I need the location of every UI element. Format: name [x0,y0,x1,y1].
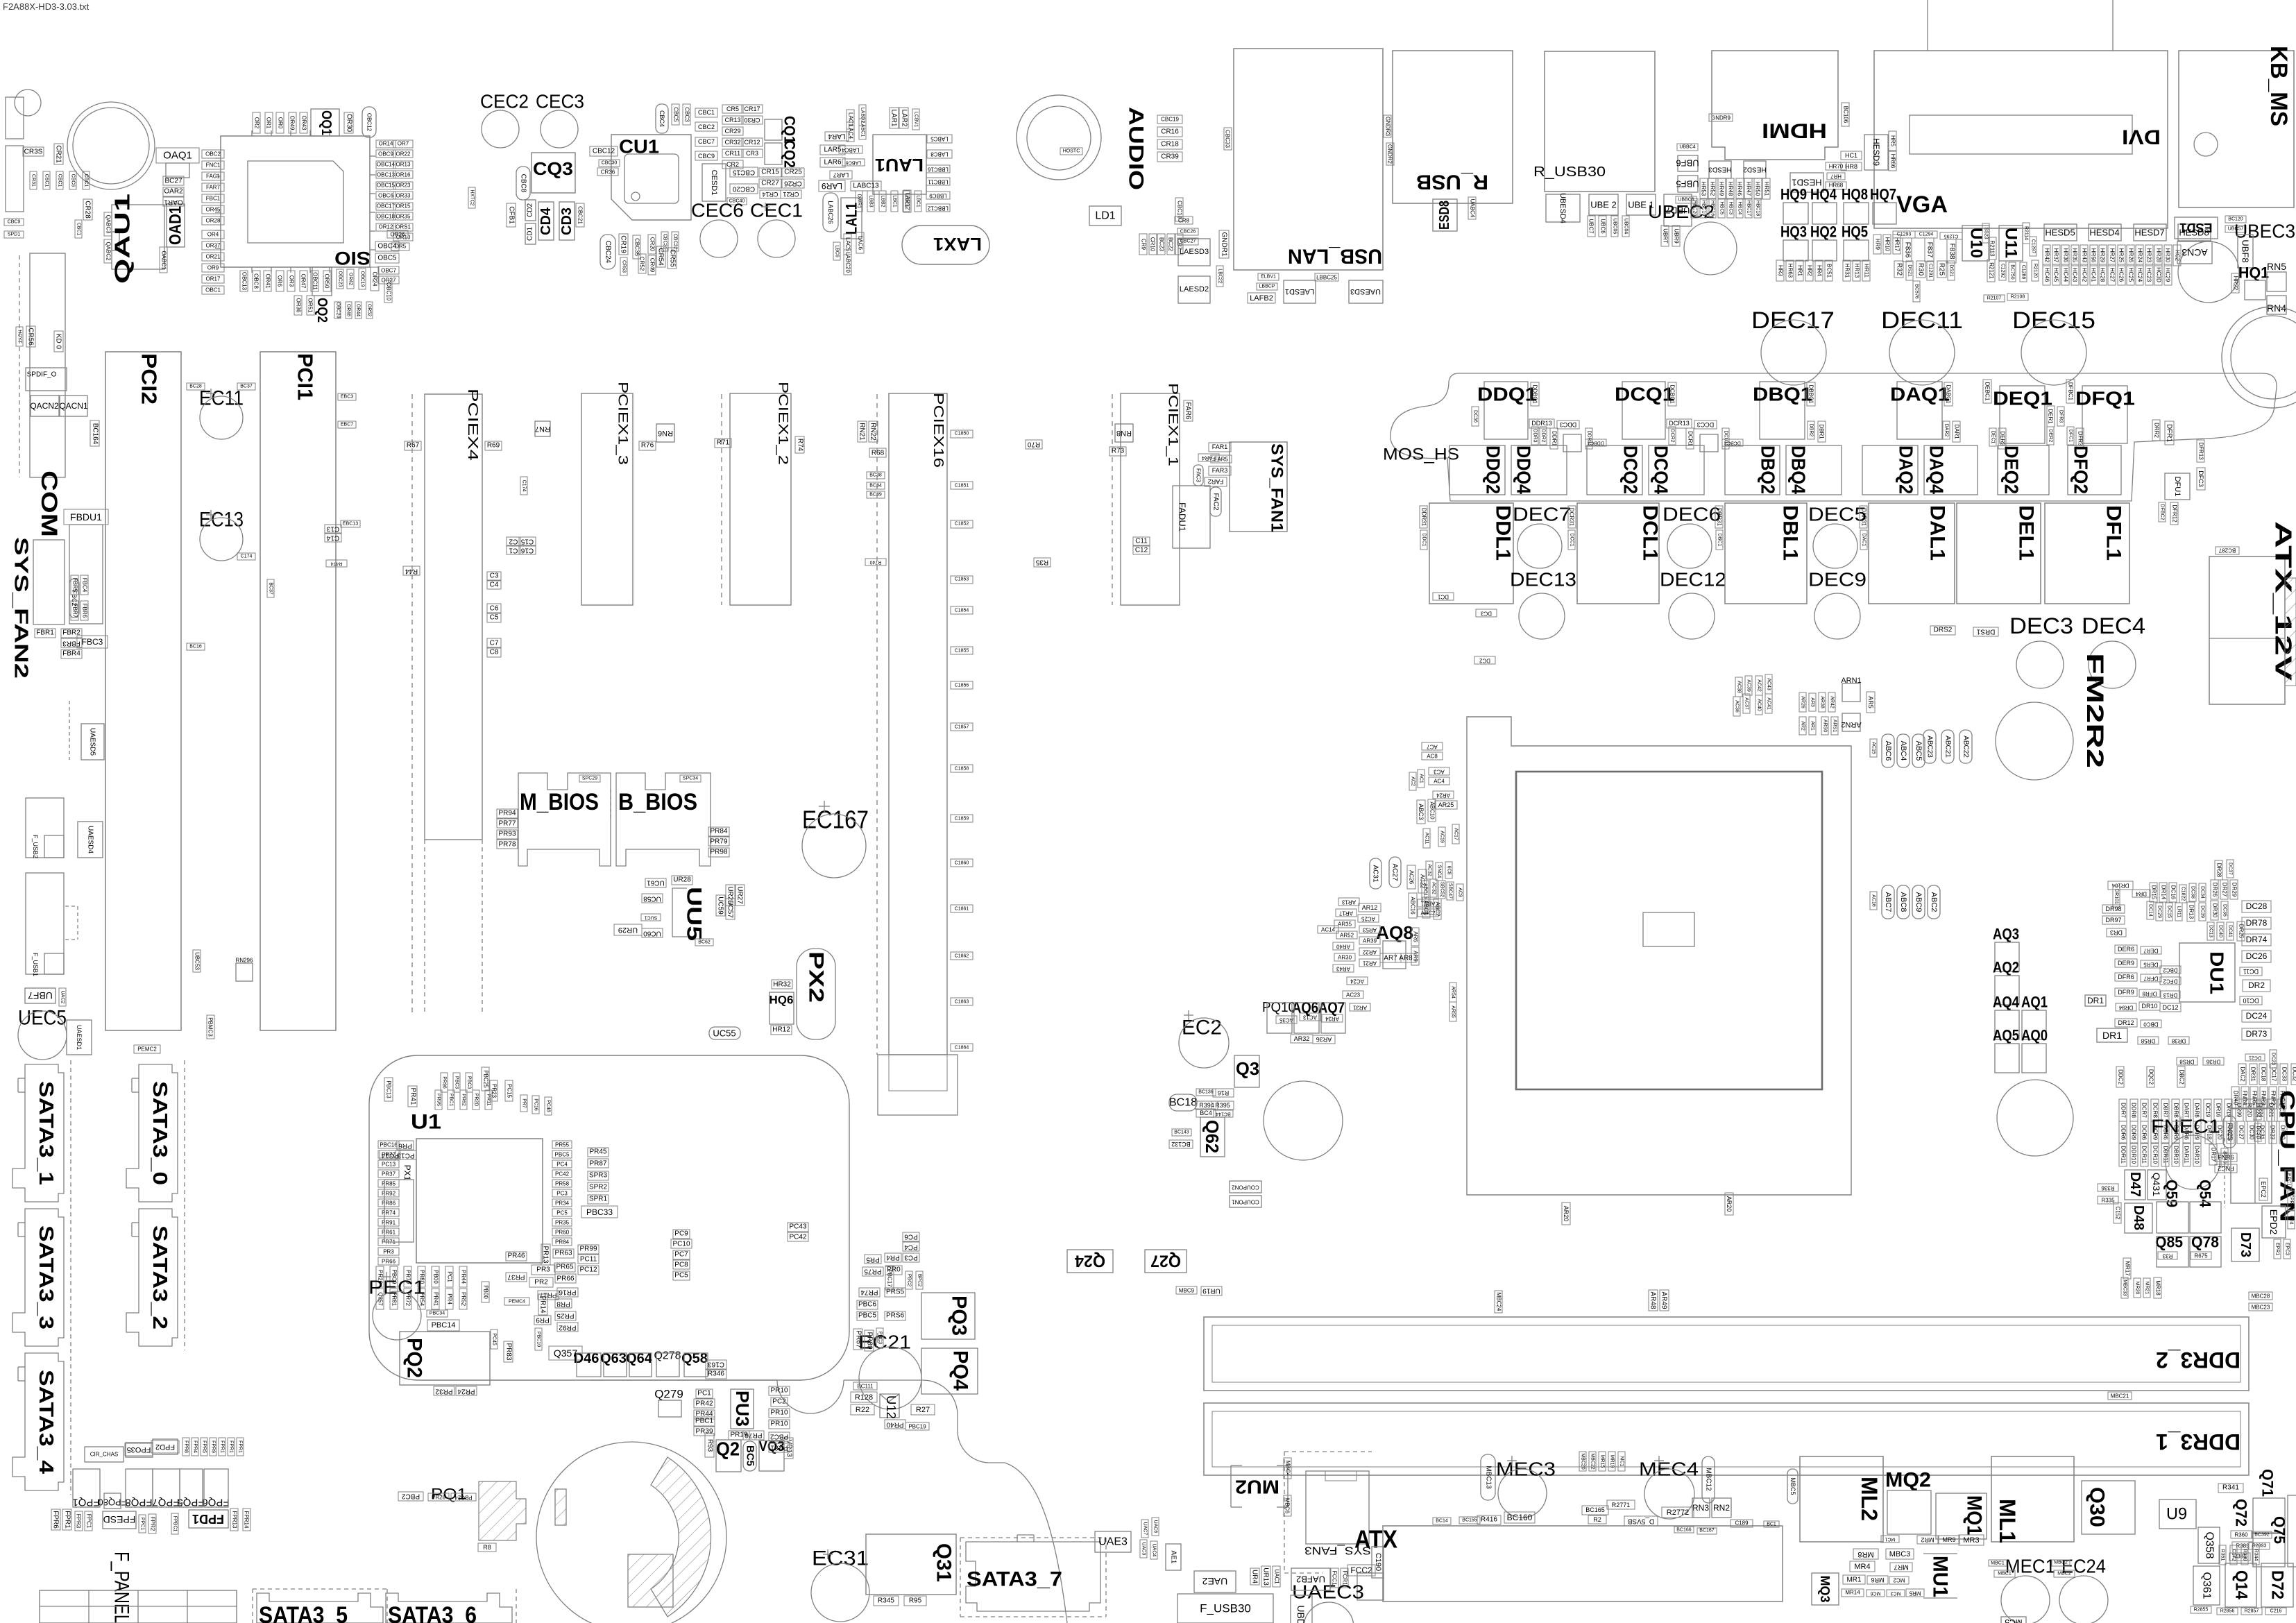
svg-text:DQC2: DQC2 [2148,1069,2154,1085]
svg-text:DR13: DR13 [2163,992,2177,999]
svg-text:PU3: PU3 [732,1391,753,1427]
capacitor C190 [1372,1547,1384,1578]
small parts left edge [4,219,24,226]
resistors CR54 CR55 CR52 CR49 CR53 [656,246,665,267]
svg-text:PC15: PC15 [507,1084,513,1098]
svg-text:CBC2: CBC2 [698,124,715,130]
svg-text:CR25: CR25 [784,169,802,176]
svg-text:DDR6: DDR6 [2120,1125,2127,1140]
svg-text:MBC4: MBC4 [1285,1461,1291,1477]
svg-text:DC28: DC28 [2246,901,2268,911]
diode D72 [2261,1563,2293,1607]
svg-text:PQ2: PQ2 [403,1338,426,1378]
capacitors above DDR3_2 [1201,1286,1222,1295]
svg-text:DC41: DC41 [2228,925,2233,937]
svg-text:DR29: DR29 [2231,883,2238,897]
svg-text:ELBV1: ELBV1 [1261,275,1276,280]
svg-text:CR12: CR12 [744,139,760,146]
svg-text:UBRT: UBRT [1663,228,1669,244]
svg-text:HR37: HR37 [2053,248,2059,263]
capacitors PC43 PC42 [788,1223,808,1232]
svg-text:DR15: DR15 [2151,885,2157,900]
svg-text:CD4: CD4 [538,207,554,235]
svg-text:MR1: MR1 [1846,1577,1862,1584]
svg-text:MR18: MR18 [2155,1280,2161,1295]
svg-text:MC6: MC6 [1871,1591,1881,1596]
svg-text:ABC8: ABC8 [1899,892,1907,912]
svg-text:C189: C189 [1735,1520,1749,1527]
FET PQ3 [921,1293,975,1339]
svg-text:OBC23: OBC23 [338,271,343,287]
svg-text:PC14: PC14 [381,1152,398,1159]
capacitor SPC34 [680,775,701,782]
svg-text:AC36: AC36 [1735,700,1740,713]
svg-text:DCQ4: DCQ4 [1651,445,1672,494]
svg-text:DR12: DR12 [2118,1019,2134,1026]
svg-text:UC60: UC60 [643,930,661,937]
capacitor UBF7 [25,988,56,1003]
svg-text:DFR3: DFR3 [2059,410,2064,423]
svg-text:CR11: CR11 [725,150,740,157]
svg-text:PR16: PR16 [559,1289,576,1296]
svg-text:SATA3_5: SATA3_5 [259,1602,348,1623]
svg-text:AR32: AR32 [1294,1035,1310,1042]
inductor ML2 [1800,1456,1883,1542]
svg-text:DR78: DR78 [2246,918,2268,928]
svg-text:HR23: HR23 [2146,248,2152,263]
svg-text:CR56: CR56 [27,328,35,346]
svg-text:C1822: C1822 [2181,887,2186,901]
resistor column AR12 AC25 AR53 AR39 AR22 AR21 [1359,903,1381,912]
LAN chip LAU1 [873,135,926,194]
svg-text:PBC10: PBC10 [536,1332,541,1347]
svg-text:R345: R345 [878,1597,894,1605]
svg-text:PR2: PR2 [534,1279,548,1286]
capacitor GNDR9 [1709,114,1733,121]
FET Q431 [2148,1170,2166,1200]
svg-text:DDR10: DDR10 [2131,1146,2137,1164]
svg-text:D47: D47 [2127,1172,2143,1197]
svg-text:DCR6: DCR6 [2141,1125,2148,1140]
svg-text:DBR10: DBR10 [2173,1146,2179,1164]
svg-text:C1861: C1861 [955,907,969,912]
svg-text:HC41: HC41 [2091,268,2097,282]
capacitor LABC13 [851,181,881,191]
svg-text:CD3: CD3 [559,207,575,235]
resistor network RN2 [1712,1498,1731,1518]
rear USB stack R_USB [1393,51,1513,203]
svg-text:PR89: PR89 [866,1332,874,1349]
svg-text:LAESD3: LAESD3 [1180,248,1209,256]
svg-text:HC3D: HC3D [2156,267,2162,282]
svg-text:HQ3: HQ3 [1780,223,1807,241]
svg-text:AR17: AR17 [1338,910,1353,917]
resistors LAC5 LAC6 LABC20 LAC2 [844,234,851,255]
svg-text:AR20: AR20 [1563,1206,1570,1222]
svg-text:C163: C163 [708,1361,724,1368]
svg-text:UBC7: UBC7 [1588,219,1595,234]
SATA connector SATA3_1 [12,1064,64,1202]
svg-text:AC2: AC2 [1411,776,1415,786]
svg-text:FPR2: FPR2 [150,1517,156,1531]
svg-text:FBC1: FBC1 [206,196,221,202]
resistors R383 R381 [2232,1542,2253,1549]
hatched region left edge [555,1489,566,1525]
svg-text:SS23: SS23 [1984,227,1989,239]
svg-text:UAFB2: UAFB2 [1296,1574,1325,1585]
resistor row below LAU1 [856,191,862,212]
svg-text:HC29: HC29 [2165,268,2171,282]
svg-text:DR3: DR3 [2110,929,2123,936]
diode CD2 [525,200,536,221]
svg-text:R474: R474 [331,561,343,566]
svg-text:HR51: HR51 [1764,182,1770,196]
svg-text:AR9: AR9 [1413,951,1419,962]
svg-text:DDR3_1: DDR3_1 [2156,1429,2240,1454]
svg-text:MR5: MR5 [1909,1590,1921,1597]
svg-text:DFR9: DFR9 [2118,989,2134,996]
svg-text:PR13: PR13 [542,1246,550,1263]
SIO pin stubs [251,130,253,136]
svg-text:OBC13: OBC13 [377,172,396,178]
svg-text:UU5: UU5 [683,887,706,941]
svg-text:DFR3: DFR3 [2077,432,2084,446]
svg-text:CBC19: CBC19 [1161,117,1179,123]
svg-text:FAC1: FAC1 [206,173,221,180]
svg-text:DC2: DC2 [1479,658,1490,664]
svg-text:OAR1: OAR1 [164,198,183,206]
svg-text:PBC3: PBC3 [878,1332,883,1344]
svg-text:OR30: OR30 [346,114,353,133]
svg-text:OBC9: OBC9 [378,151,393,158]
svg-text:R344: R344 [2254,1549,2259,1561]
svg-text:MBC2: MBC2 [2054,1561,2068,1565]
svg-text:UC55: UC55 [713,1028,735,1039]
svg-text:PR66: PR66 [382,1259,396,1265]
svg-text:PC12: PC12 [579,1266,597,1274]
svg-text:EBC13: EBC13 [343,522,358,527]
capacitors beside DDQ1 [1531,382,1539,406]
resistors right of U1 [588,1148,609,1157]
PCIe x1 slot PCIEX1_1 [1112,394,1113,605]
svg-text:HR26: HR26 [2128,248,2134,263]
svg-text:PR63: PR63 [554,1250,572,1257]
resistor network RN22 RN21 [869,421,878,442]
svg-text:OR16: OR16 [396,172,411,178]
svg-text:R_USB30: R_USB30 [1533,164,1606,180]
svg-text:R35: R35 [1035,559,1048,566]
svg-text:HC24: HC24 [2137,268,2143,282]
svg-text:CR54: CR54 [657,248,665,266]
svg-text:HR17: HR17 [1894,237,1900,252]
svg-text:AC15: AC15 [1871,742,1876,754]
left side resistor cluster AC7 AC8 AC3 AC4 [1422,742,1443,750]
capacitor FAC3 [1193,465,1203,486]
inductor DEL1 [1957,503,2041,604]
capacitor cluster below-right of SIO [337,269,343,289]
svg-text:PCIEX1_1: PCIEX1_1 [1166,383,1180,466]
DVI VGA connector body [1874,51,2168,228]
svg-text:PR9S: PR9S [436,1094,441,1107]
svg-text:DCR11: DCR11 [2141,1146,2148,1164]
ESD chip CESD1 [702,164,726,201]
svg-text:PR46: PR46 [507,1252,525,1260]
svg-text:PR99: PR99 [579,1246,597,1253]
svg-text:C1851: C1851 [955,484,969,488]
resistors FBR cluster [80,575,88,595]
svg-text:Q3: Q3 [1236,1058,1259,1079]
svg-text:DFC3: DFC3 [2197,470,2204,487]
resistor HOYTC2 [468,187,475,208]
svg-text:FBDU1: FBDU1 [70,511,102,522]
svg-text:R_USB: R_USB [1416,171,1488,194]
FET PQ2 [400,1332,490,1385]
resistors R33 R675 [2158,1252,2177,1259]
resistor cluster right of PEC1 [506,1252,527,1261]
svg-text:OR49: OR49 [289,116,296,130]
svg-text:CR10: CR10 [1150,237,1156,252]
resistor AR5 [1866,692,1875,713]
diode CD3 [559,202,575,240]
svg-text:OQ2: OQ2 [314,298,330,323]
U1 surrounding passives top row [384,1078,393,1101]
resistor DR1 label [2097,1028,2127,1042]
resistors R2121 R2113 etc [1987,260,1995,282]
svg-text:HESD5: HESD5 [2045,228,2075,238]
svg-text:DRR2: DRR2 [2154,423,2160,438]
svg-text:MOS_HS: MOS_HS [1383,445,1459,464]
svg-text:PR86: PR86 [382,1200,396,1207]
svg-text:FNR5: FNR5 [2252,1091,2258,1105]
svg-text:PX1: PX1 [402,1165,412,1181]
svg-text:UBE 2: UBE 2 [1590,200,1617,210]
capacitors C5 C6 [487,604,501,613]
svg-text:R67: R67 [407,442,420,450]
svg-text:Q31: Q31 [933,1543,955,1582]
svg-text:PR45: PR45 [589,1148,606,1156]
svg-text:RN7: RN7 [535,425,550,433]
svg-text:OR26: OR26 [391,232,405,238]
svg-text:LABC26: LABC26 [827,201,834,224]
svg-text:HC27: HC27 [2109,268,2116,282]
svg-text:DR104: DR104 [2111,883,2129,889]
capacitor DC2 [1474,656,1495,664]
svg-text:KD 0: KD 0 [55,334,62,350]
resistors R345 R95 [874,1596,899,1606]
svg-text:CR53: CR53 [622,260,627,273]
svg-text:CBC18: CBC18 [1177,201,1183,219]
svg-text:DBR31: DBR31 [1717,508,1723,526]
crystal CQ3 [532,153,575,193]
svg-text:PR39: PR39 [695,1428,713,1436]
svg-text:MC5: MC5 [2005,1617,2023,1623]
svg-text:PEC1: PEC1 [368,1277,425,1298]
capacitors above ESD1 [2225,216,2246,223]
svg-text:MR14: MR14 [1845,1590,1860,1596]
svg-text:FNC2: FNC2 [2218,1165,2234,1172]
svg-text:PCIEX1_3: PCIEX1_3 [615,382,630,465]
svg-text:ABC22: ABC22 [1962,736,1970,758]
resistors PR19 PR76 [729,1431,749,1440]
svg-text:PR91: PR91 [382,1220,396,1226]
svg-text:DDC1: DDC1 [1422,533,1427,546]
resistors HC1 HR8 HR70 HR7 HR68 [1841,151,1862,160]
U1 left column passives [378,1141,399,1148]
capacitors EBC3 EBC7 right of PCI1 [338,393,356,400]
svg-text:UAC7: UAC7 [1143,1522,1148,1536]
inductor DBL1 [1725,503,1807,604]
capacitors BC288 BC374 beside EC11 [187,383,205,390]
svg-text:DEC15: DEC15 [2012,307,2095,334]
svg-text:PPC1: PPC1 [140,1518,145,1530]
svg-text:FPR4: FPR4 [193,1441,198,1453]
resistor OR30 [344,112,353,133]
svg-text:UBF7: UBF7 [28,990,53,1001]
clock chip CU1 [611,135,691,220]
chip ACN3 [2177,241,2212,264]
svg-text:PBC17: PBC17 [887,1269,893,1287]
capacitors CBC30 CR36 [599,160,620,167]
svg-text:UAE2: UAE2 [1202,1576,1228,1587]
svg-text:BC143: BC143 [1174,1130,1189,1135]
svg-text:HR10: HR10 [1885,237,1891,252]
svg-text:CR17: CR17 [744,105,760,112]
svg-text:UR19: UR19 [1202,1287,1221,1295]
svg-text:OR13: OR13 [396,162,411,168]
svg-text:UBC05: UBC05 [1613,219,1617,235]
svg-text:DBC2: DBC2 [2179,1069,2185,1085]
svg-text:HC26: HC26 [2118,268,2125,282]
svg-text:CQ2: CQ2 [781,140,799,168]
svg-text:LABD2: LABD2 [860,108,865,123]
CPU socket center rect [1643,912,1694,946]
resistors AR32 AR36 [1291,1035,1313,1043]
svg-text:R335: R335 [2101,1198,2115,1204]
svg-text:DEC5: DEC5 [1808,504,1866,525]
svg-text:OAQ1: OAQ1 [163,150,192,162]
svg-text:FAR2: FAR2 [1208,478,1224,485]
resistor R2772 [1662,1507,1694,1518]
svg-text:R27: R27 [916,1406,930,1414]
svg-text:AC38: AC38 [1737,681,1742,693]
resistor CR28 [83,199,92,220]
svg-text:AC8: AC8 [1427,754,1438,760]
svg-text:PR35: PR35 [555,1220,570,1226]
svg-text:C6: C6 [490,605,499,613]
svg-text:PR9: PR9 [536,1316,550,1324]
svg-text:DER5: DER5 [2143,962,2159,968]
svg-text:DCBC1: DCBC1 [1669,384,1676,404]
capacitor group ABC7 ABC8 ABC9 ABC23b right side [1870,892,1877,910]
svg-text:DDR31: DDR31 [1421,508,1427,527]
diode CD4 [538,202,554,240]
svg-text:HC46: HC46 [2044,268,2050,282]
svg-text:HQ5: HQ5 [1842,223,1868,241]
svg-text:PC45: PC45 [492,1333,497,1345]
svg-text:DAC2: DAC2 [2240,1067,2246,1082]
fan header SYS_FAN1 [1230,442,1287,532]
svg-text:C1856: C1856 [955,683,969,688]
svg-text:OR36: OR36 [296,298,302,313]
svg-text:OR50: OR50 [324,274,330,289]
FET MQ1 [1936,1493,1987,1539]
svg-text:FPR9: FPR9 [211,1441,216,1453]
svg-text:OR1: OR1 [266,117,272,129]
mounting circle below AQ [1997,1080,2073,1156]
svg-text:RN22: RN22 [869,423,877,441]
svg-text:DFR6: DFR6 [2118,974,2134,980]
svg-text:UC59: UC59 [717,897,724,915]
svg-text:OR52: OR52 [367,304,372,316]
svg-text:OBC7: OBC7 [381,268,396,274]
svg-text:BC34: BC34 [869,484,882,488]
resistor column CR17 CR30 CR12 CR3 [742,105,763,113]
svg-text:AQ7: AQ7 [1318,999,1345,1017]
svg-text:DDQ2: DDQ2 [1483,445,1504,494]
svg-text:MU2: MU2 [1235,1477,1279,1498]
capacitor DC3 [1476,609,1497,617]
svg-text:CR5: CR5 [726,105,739,112]
svg-text:QABC2: QABC2 [105,241,112,261]
capacitor column right of PCIEX16 C1851-C1865 [951,430,973,438]
svg-text:HQ9: HQ9 [1780,186,1807,203]
svg-text:DDBC3: DDBC3 [1588,441,1604,445]
svg-text:FNEC1: FNEC1 [2151,1116,2220,1137]
svg-text:CBC1: CBC1 [58,174,62,187]
svg-text:MBC23: MBC23 [2252,1305,2270,1311]
svg-text:PBMC3: PBMC3 [207,1017,214,1037]
svg-text:UAESD1: UAESD1 [76,1025,83,1050]
svg-text:FPR14: FPR14 [244,1511,250,1529]
svg-text:PQ3: PQ3 [948,1295,971,1336]
svg-text:MR20: MR20 [2135,1282,2140,1295]
svg-text:SATA3_0: SATA3_0 [148,1081,171,1185]
svg-text:AR36: AR36 [1316,1036,1332,1043]
svg-text:DC37: DC37 [2228,863,2233,875]
svg-text:DCC3: DCC3 [1697,421,1715,428]
svg-text:PR55: PR55 [555,1142,570,1148]
svg-text:OR0: OR0 [278,117,284,129]
svg-text:DR25: DR25 [2238,924,2245,939]
svg-text:EPC3: EPC3 [2285,1243,2290,1255]
svg-text:FPR1: FPR1 [64,1511,71,1529]
battery holder [536,1442,726,1623]
svg-text:PR94: PR94 [498,810,516,817]
svg-text:DDQ1: DDQ1 [1477,384,1537,405]
svg-text:F_USB2: F_USB2 [32,835,39,858]
capacitors C3 C4 [487,572,501,581]
svg-text:DAC1: DAC1 [1862,534,1866,547]
svg-text:HR29: HR29 [2100,248,2106,263]
svg-text:DRS2: DRS2 [1934,627,1953,634]
resistor CR56 [26,326,35,347]
svg-text:DCR13: DCR13 [1669,420,1690,427]
svg-text:CEC2: CEC2 [480,91,529,112]
MOS heatsink outline MOS_HS [1391,373,2277,501]
svg-text:CBC8: CBC8 [520,174,527,193]
ESD chip UAESD1 [67,1020,92,1055]
capacitor MBC21 [2108,1392,2132,1400]
svg-text:Q24: Q24 [1074,1252,1105,1271]
chip EPD2 [2262,1206,2286,1238]
CPU socket inner square [1516,772,1822,1089]
svg-text:PR74: PR74 [382,1210,396,1216]
svg-text:PR10: PR10 [770,1420,788,1428]
resistors CR35 CR21 top-left [23,147,44,156]
svg-text:DC10: DC10 [2243,997,2259,1004]
svg-text:MC1: MC1 [1885,1537,1896,1542]
svg-text:FPR1: FPR1 [220,1441,225,1453]
